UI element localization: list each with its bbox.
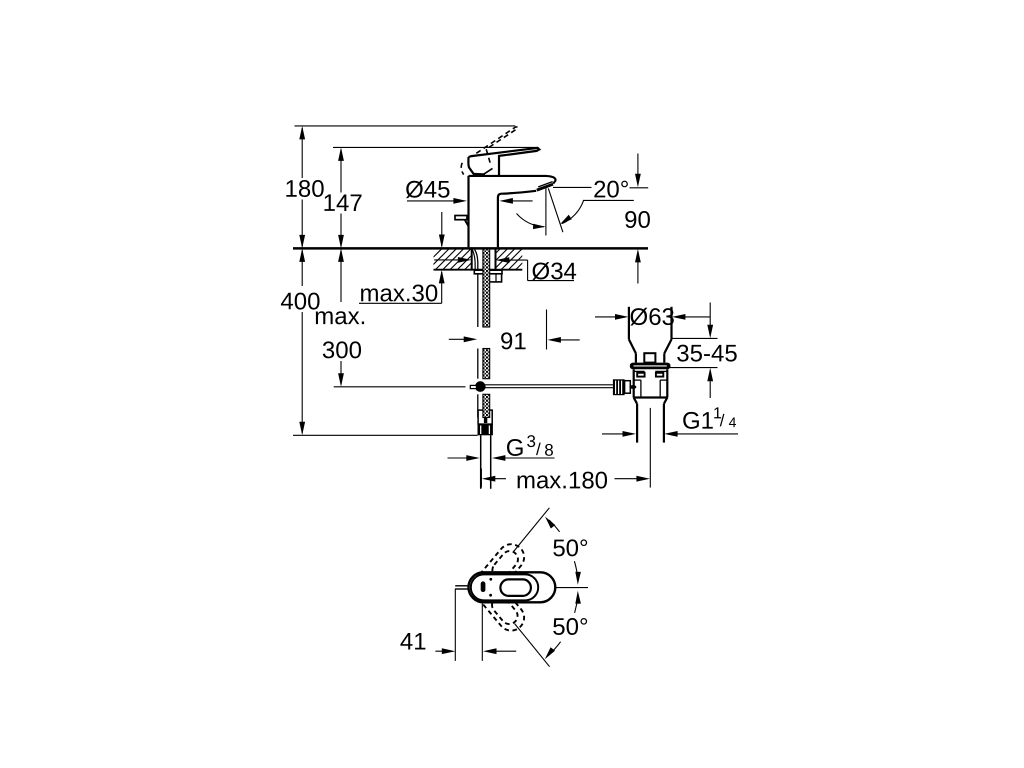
svg-text:8: 8 xyxy=(544,441,553,460)
svg-text:Ø45: Ø45 xyxy=(405,176,450,203)
svg-text:300: 300 xyxy=(322,337,362,364)
svg-text:Ø34: Ø34 xyxy=(532,258,577,285)
svg-text:max.30: max.30 xyxy=(360,280,439,307)
svg-text:max.: max. xyxy=(314,303,366,330)
svg-text:G: G xyxy=(506,435,525,462)
svg-text:3: 3 xyxy=(526,432,535,451)
svg-text:90: 90 xyxy=(624,207,651,234)
svg-text:G1: G1 xyxy=(682,408,714,435)
svg-text:50°: 50° xyxy=(552,535,588,562)
svg-text:147: 147 xyxy=(323,190,363,217)
svg-text:50°: 50° xyxy=(552,614,588,641)
svg-text:35-45: 35-45 xyxy=(676,340,737,367)
svg-text:/: / xyxy=(720,411,725,430)
svg-text:180: 180 xyxy=(285,176,325,203)
svg-text:4: 4 xyxy=(729,414,737,430)
svg-text:Ø63: Ø63 xyxy=(630,304,675,331)
svg-text:/: / xyxy=(536,440,541,459)
svg-text:91: 91 xyxy=(500,328,527,355)
svg-text:max.180: max.180 xyxy=(516,467,608,494)
svg-text:20°: 20° xyxy=(593,176,629,203)
svg-text:41: 41 xyxy=(400,629,427,656)
